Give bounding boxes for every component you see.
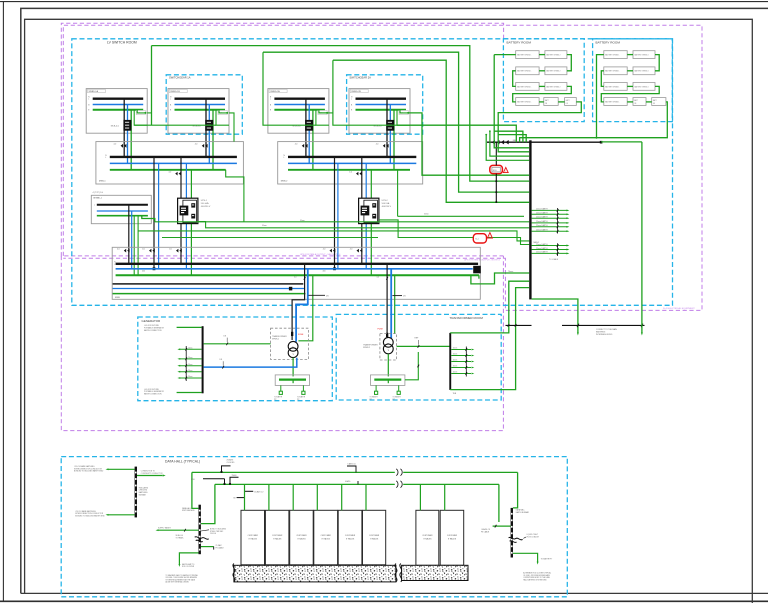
wire UPS-2 output green to main bus (370, 224, 372, 276)
UPS unit UPS-1 inner module (183, 200, 197, 223)
wire UPS-2 input blue (365, 163, 367, 200)
wire EB-1 bottom-left lead (108, 514, 135, 516)
svg-text:TO LOADS: TO LOADS (549, 258, 559, 261)
breaker feeder SWBD-1A black riser down (123, 99, 125, 157)
svg-text:L: L (270, 99, 271, 101)
customer IT rack 4 (314, 510, 338, 565)
isolator stub T1 (309, 294, 326, 296)
svg-text:L: L (114, 264, 115, 266)
svg-text:TRANSFORMER ROOM: TRANSFORMER ROOM (450, 316, 484, 320)
switchboard SWBD-1A blue bus (93, 104, 144, 106)
svg-text:4,0: 4,0 (376, 144, 379, 146)
svg-text:CUSTOMER: CUSTOMER (345, 535, 356, 537)
MSB-1 blue bus (110, 162, 237, 164)
transformer T2 symbol (383, 337, 393, 347)
svg-text:N+1 ELECTRICAL EQUIPMENT: N+1 ELECTRICAL EQUIPMENT (663, 307, 695, 310)
svg-text:BUSBAR: BUSBAR (139, 494, 147, 497)
MSB secondary green bus (113, 293, 306, 295)
customer IT rack 8 (440, 510, 464, 565)
wire green rail upper 3 (333, 60, 529, 202)
svg-text:CB: CB (545, 103, 547, 105)
wire SWBD-2B green exit to riser lower (397, 125, 516, 142)
svg-text:25mm EARTH: 25mm EARTH (536, 224, 548, 227)
wire battery room 1 feeder A riser-top branch (494, 131, 523, 142)
wire battery room 1 feeder A (charger) (494, 54, 516, 56)
earthing bus T1 (279, 379, 306, 381)
wire MSB-2 feeder black to main bus (334, 157, 336, 269)
svg-text:ROD CLUSTER: ROD CLUSTER (182, 566, 195, 568)
riser top chevron marks (492, 140, 495, 144)
breaker feeder SWBD-2A black riser down (305, 99, 307, 157)
wire data hall earth rail R1 (192, 471, 395, 473)
earth electrode T1 right (302, 385, 304, 391)
MSB-2 blue bus (288, 162, 416, 164)
wire EB-2 supply lead (158, 529, 199, 531)
battery string box row3 col2 (545, 83, 567, 91)
wire UPS-2 output blue to main bus (365, 223, 367, 269)
UPS unit UPS-1 static switch block lower (191, 214, 195, 219)
svg-text:25mm: 25mm (188, 348, 193, 350)
switch mark on T1 feed (304, 277, 306, 280)
svg-text:25mm EARTH: 25mm EARTH (536, 208, 548, 211)
remote power panel earth bar EB-3 (511, 508, 513, 558)
MSB secondary blue bus (113, 288, 305, 290)
label frame SWBD-1A tap (136, 110, 145, 114)
wire SWBD-2A green bus tap lower (316, 110, 329, 126)
svg-text:SWITCHGEAR 1A: SWITCHGEAR 1A (169, 76, 191, 80)
concrete pad break wave left end (233, 564, 235, 582)
generator bottom earth lead (177, 392, 202, 394)
earth electrode T2 right (398, 385, 400, 391)
wire SWBD-2B green bus tap upper (400, 110, 409, 113)
wire T2 LV down to earthing (387, 354, 389, 377)
svg-text:MSB-1: MSB-1 (99, 181, 106, 183)
UPS unit UPS-1 static switch block upper (191, 203, 195, 207)
incoming breaker marks MSB from MSB-1 (149, 249, 151, 253)
wire MSB-1 feeder blue to main bus (158, 163, 160, 268)
wire green rail upper 2 (263, 52, 529, 192)
svg-text:BATTERY ROOM: BATTERY ROOM (507, 40, 532, 44)
wire riser left entry e3 (490, 131, 529, 156)
wire SWBD-1A lower tap to SWBD-1B tap (134, 124, 216, 126)
utility overhead line right segment (562, 324, 645, 326)
wire bypass rail B (UPS-1 output) (198, 222, 529, 228)
paralleling switchboard MSB-2 enclosure (278, 142, 423, 184)
earth electrode T2 left (375, 385, 377, 391)
wire stepped cable jog T1 (291, 301, 293, 311)
MSB-1 black bus (110, 156, 237, 158)
svg-text:6 AWG CU: 6 AWG CU (348, 463, 357, 466)
battery string box row1 col1 (516, 51, 539, 59)
battery serpentine right link row1-row2 (655, 55, 659, 71)
room box - SWITCHGEAR 2 (347, 75, 423, 134)
wire UPS-2 input green (370, 170, 372, 198)
fuse block on T1 cable entry (291, 332, 293, 336)
breaker mark UPS-1 input (175, 172, 177, 176)
wire battery room 2 feeder A (charger) (597, 55, 604, 138)
battery serpentine bridge row4a (627, 101, 633, 103)
svg-text:CU BOND: CU BOND (227, 462, 236, 464)
wire EB-2 bottom out (179, 553, 198, 565)
wire rack 2 earth drop (268, 484, 270, 510)
svg-text:IT RACKS: IT RACKS (346, 537, 355, 540)
UPS unit UPS-2 inner module (364, 200, 378, 223)
svg-text:25mm EARTH: 25mm EARTH (536, 216, 548, 219)
UPS unit UPS-2 static switch block lower (372, 214, 376, 219)
wire green riser drop to SWBD-2A lower tap (263, 52, 316, 125)
svg-text:25mm: 25mm (188, 357, 193, 359)
wire GEN-1 green feeder 2 to main bus (137, 216, 139, 276)
switchboard SWBD-2A enclosure (268, 89, 329, 134)
battery serpentine bridge row4b (558, 101, 564, 103)
main switchboard MSB enclosure (112, 247, 480, 299)
wire rack 5 earth drop (341, 484, 343, 510)
room box - BATTERY ROOM 1 (503, 39, 584, 122)
svg-text:SWITCHBOARD: SWITCHBOARD (182, 509, 195, 512)
svg-text:DATA HALL (TYPICAL): DATA HALL (TYPICAL) (165, 460, 200, 464)
MSB secondary black bus (113, 283, 304, 285)
generator top earth lead (177, 326, 202, 328)
breaker feeder SWBD-1B blue riser down (208, 105, 210, 164)
wire T2 neutral-earth link to room bus (397, 345, 450, 347)
svg-text:2: 2 (505, 171, 506, 173)
svg-text:MCB-4,0: MCB-4,0 (374, 126, 383, 128)
standby generator board GEN-1 enclosure (91, 195, 151, 223)
customer IT rack 3 (290, 510, 314, 565)
svg-text:MCB-4,0: MCB-4,0 (111, 126, 120, 128)
EB-2 right note with leader (201, 530, 209, 531)
circuit breaker CB-SWBD-1A (123, 120, 131, 131)
riser top horizontal bar (487, 141, 601, 143)
svg-text:35mm: 35mm (424, 214, 429, 216)
wire SWBD-2B green bus tap lower (397, 110, 410, 126)
svg-text:4,0: 4,0 (377, 277, 380, 279)
svg-text:PIT: PIT (274, 399, 277, 401)
incoming breaker marks MSB-1 from SWBD-1A (121, 144, 123, 148)
earthing bus T2 (374, 379, 401, 381)
wire battery room 2 spare feeder down (641, 142, 643, 333)
svg-text:IT RACKS: IT RACKS (322, 537, 331, 540)
flexible conduit symbol EB-2 (195, 537, 209, 540)
svg-text:EARTH CONNECTION: EARTH CONNECTION (144, 329, 162, 332)
battery serpentine left link row2-row3 (513, 71, 516, 87)
svg-text:L: L (284, 157, 285, 159)
svg-text:4,0: 4,0 (169, 171, 172, 173)
switchboard SWBD-2A black bus (274, 97, 325, 99)
battery serpentine bridge row4b (646, 101, 652, 103)
incoming breaker marks MSB from GENBD-1 (124, 249, 126, 253)
battery string box row3 col2 (633, 83, 655, 91)
paralleling switchboard MSB-1 enclosure (96, 142, 244, 184)
room box - SWITCHGEAR 1 (166, 75, 242, 134)
R2 bond mark 2 (230, 477, 239, 484)
revision triangle 2 (487, 233, 492, 239)
svg-text:25mm EARTH: 25mm EARTH (536, 229, 548, 232)
UPS unit UPS-2 rectifier block (361, 206, 370, 216)
svg-text:IT RACKS: IT RACKS (423, 537, 432, 540)
battery disconnect box row4 col2b (652, 98, 666, 106)
concrete pad break wave right end (395, 564, 397, 582)
customer IT rack 1 (241, 510, 265, 565)
earthing assembly T1 box (275, 375, 309, 386)
breaker feeder SWBD-2B blue riser down (389, 105, 391, 164)
circuit breaker CB-SWBD-2B (386, 120, 394, 131)
R1 bond mark right (347, 466, 356, 472)
svg-text:4,0: 4,0 (323, 249, 326, 251)
svg-text:4,0: 4,0 (142, 249, 145, 251)
battery serpentine long link row3-row4 (513, 86, 572, 102)
svg-text:XFMR-2: XFMR-2 (363, 347, 370, 349)
circuit breaker CB-SWBD-2A (305, 120, 313, 131)
svg-text:35mm: 35mm (262, 225, 267, 227)
svg-text:SWBD-1A: SWBD-1A (89, 90, 99, 93)
svg-text:IT RACKS: IT RACKS (249, 537, 258, 540)
wire SWBD-2A upper tap to rail drop (319, 112, 333, 114)
wire earthing bus T2 riser link (405, 352, 418, 380)
wire GEN-1 green side exit to bypass rail A (142, 216, 155, 222)
svg-text:25mm EARTH: 25mm EARTH (536, 247, 548, 250)
wire battery room 2 string output to spare riser (520, 102, 668, 142)
svg-text:500 kVA: 500 kVA (382, 202, 390, 205)
switch mark on T2 feed (386, 277, 388, 280)
wire EB-3 bottom out (513, 553, 538, 562)
R1 bond mark 1 (222, 466, 231, 473)
wire UPS-1 input green (190, 170, 192, 198)
label frame SWBD-2B tap (399, 110, 408, 114)
svg-text:CB: CB (634, 103, 636, 105)
magenta scope box M3 (generator and transformer boundary) (61, 256, 503, 431)
wire rack 6 earth drop (365, 484, 367, 510)
svg-text:L: L (351, 99, 352, 101)
switchboard SWBD-2B green bus (356, 109, 407, 111)
magenta scope box M2 (UPS system B boundary) (63, 25, 702, 310)
svg-text:L: L (105, 157, 106, 159)
riser DC distribution stubs group 1 (532, 209, 567, 211)
customer IT rack 5 (338, 510, 362, 565)
customer IT rack 6 (363, 510, 386, 565)
riser main earth bar (529, 140, 531, 299)
svg-text:4,0: 4,0 (349, 171, 352, 173)
wire battery room 2 spare feeder top link (601, 141, 642, 143)
battery string box row2 col1 (604, 67, 627, 75)
concrete housekeeping pad left (234, 565, 396, 582)
wire MSB-1 feeder black to main bus (153, 157, 155, 269)
svg-text:4,0: 4,0 (294, 277, 297, 279)
wire SWBD-1A green tap link (147, 112, 151, 114)
wire SWBD-1B green bus tap upper (219, 110, 228, 113)
incoming breaker marks MSB-2 from SWBD-2A (302, 144, 304, 148)
wire GEN-1 green feeder to main bus (133, 216, 135, 276)
wire SWBD-1B green upper tap exit (229, 113, 234, 142)
wire R1 to switchboard drop (192, 472, 199, 508)
battery breaker box row4 col2a (544, 98, 558, 106)
svg-text:70mm: 70mm (508, 271, 514, 273)
wire UPS-1 output blue to main bus (185, 223, 187, 269)
utility switch mark 2 (577, 324, 579, 327)
battery serpentine left link row2-row3 (601, 71, 604, 87)
svg-text:L: L (94, 205, 95, 207)
isolator stub T2 (392, 295, 402, 297)
svg-text:L: L (170, 99, 171, 101)
wire SWBD-1A green bus tap upper (137, 110, 146, 113)
battery string box row3 col1 (604, 83, 627, 91)
wire EB-3 left stub (493, 525, 511, 527)
battery serpentine bridge row1 (627, 54, 633, 56)
battery breaker box row4 col2a (633, 98, 646, 106)
svg-text:CUSTOMER: CUSTOMER (369, 535, 380, 537)
svg-text:400: 400 (142, 271, 145, 273)
switchboard SWBD-1B green bus (175, 109, 226, 111)
wire battery room 1 feeder B riser-top branch (498, 135, 526, 143)
svg-text:TO EARTH PIT: TO EARTH PIT (541, 557, 553, 560)
riser DC distribution stubs group 2 (532, 245, 567, 247)
wire generator blue output to T1 (204, 358, 297, 367)
wire GEN-1 blue feeder to main bus (131, 211, 133, 269)
svg-text:L: L (88, 99, 89, 101)
svg-text:250.104: 250.104 (210, 533, 216, 535)
svg-text:4,0: 4,0 (169, 249, 172, 251)
fuse block on T2 cable entry (386, 333, 388, 337)
battery serpentine right link row1-row2 (567, 55, 571, 71)
UPS unit UPS-2 static switch block upper (372, 203, 376, 207)
wire SWBD-2A green bus tap upper (319, 110, 328, 113)
svg-text:MSB: MSB (115, 297, 120, 299)
wire earth bar top to riser (450, 281, 529, 333)
transformer T1 containment dashed box (271, 328, 309, 359)
svg-text:FS CABLE: FS CABLE (481, 530, 490, 533)
svg-text:500 kVA: 500 kVA (201, 202, 209, 205)
wire SWBD-1A green riser drop (151, 46, 153, 126)
switchboard SWBD-1A enclosure (86, 89, 147, 134)
wire rack 7 earth drop (419, 484, 421, 510)
wire rack 8 earth drop (444, 484, 446, 510)
svg-text:FUSE: FUSE (298, 334, 304, 336)
breaker feeder SWBD-2A green riser down (312, 110, 314, 170)
wire transformer T1 black feed (292, 264, 305, 340)
MSB-1 green bus (110, 169, 226, 171)
svg-text:XFMR-1: XFMR-1 (272, 339, 279, 341)
svg-text:IT RACKS: IT RACKS (370, 537, 379, 540)
data hall earth bar EB-1 (left) (135, 467, 137, 518)
switchboard SWBD-2B blue bus (356, 104, 407, 106)
room box - DATA HALL (TYPICAL) (61, 457, 567, 597)
breaker feeder SWBD-2A blue riser down (308, 105, 310, 164)
svg-text:2: 2 (489, 236, 490, 238)
MSB green bus (116, 274, 479, 276)
wire EB-2 right stub (201, 546, 214, 548)
svg-text:UPS-2: UPS-2 (382, 200, 389, 202)
svg-text:16mm: 16mm (453, 366, 458, 368)
svg-text:UPS-1: UPS-1 (201, 200, 208, 202)
battery string box row1 col2 (633, 51, 655, 59)
wire bypass rail C (138, 231, 529, 241)
svg-text:4,0: 4,0 (295, 144, 298, 146)
battery string box row1 col1 (604, 51, 627, 59)
riser stub tie bar 1 (557, 208, 559, 234)
breaker feeder SWBD-1B black riser down (205, 99, 207, 157)
svg-text:DS: DS (566, 103, 568, 105)
wire R2 right drop (498, 484, 500, 522)
revision cloud 1 with battery disconnect (490, 165, 503, 173)
wire green rail upper 1 (152, 46, 530, 182)
MSB-2 black bus (288, 156, 416, 158)
svg-text:16mm: 16mm (453, 348, 458, 350)
wire GEN-1 black feeder to main bus (128, 205, 130, 264)
transformer room stub tie bar (465, 347, 467, 377)
svg-text:25mm: 25mm (188, 376, 193, 378)
battery string box row2 col1 (516, 67, 539, 75)
svg-text:4,0: 4,0 (117, 249, 120, 251)
incoming breaker marks MSB from UPS-2 (357, 249, 359, 253)
earth electrode T1 left (280, 385, 282, 391)
wire rack 1 earth drop (244, 484, 246, 510)
magenta scope box M1 (UPS system A boundary) (61, 23, 503, 256)
svg-text:MSB-2: MSB-2 (281, 181, 288, 183)
battery serpentine bridge row3 (627, 85, 633, 87)
room box - TRANSFORMER ROOM (336, 314, 501, 400)
UPS unit UPS-1 rectifier block (180, 206, 189, 216)
wire EB-1 top-left lead (108, 468, 135, 470)
label frame SWBD-1B tap (218, 110, 227, 114)
utility crossing mark (515, 324, 517, 327)
svg-text:TRANSFORMER: TRANSFORMER (272, 335, 287, 338)
svg-text:IT RACKS: IT RACKS (448, 537, 457, 540)
battery disconnect box row4 col2b (565, 98, 577, 106)
svg-text:LV SWITCH ROOM: LV SWITCH ROOM (107, 41, 137, 45)
switchboard SWBD-2B enclosure (349, 89, 410, 134)
wire bypass rail D (UPS-2 output) (379, 220, 529, 245)
breaker feeder SWBD-2B black riser down (386, 99, 388, 157)
wire riser left entry e4 (486, 135, 529, 161)
transformer room earth bar (449, 333, 451, 390)
secondary bus end coupler (289, 287, 292, 291)
svg-text:GB: GB (233, 498, 235, 500)
UPS unit UPS-1 outer enclosure (178, 198, 198, 223)
room box - LV SWITCH ROOM (72, 39, 673, 306)
room box - GENERATOR (138, 317, 332, 401)
svg-text:TRANSFORMER: TRANSFORMER (363, 344, 378, 347)
wire T1 LV down to earthing (292, 358, 294, 377)
svg-text:PIT: PIT (297, 399, 300, 401)
data hall switchboard earth bar EB-2 (199, 505, 201, 555)
battery serpentine bridge row1 (539, 54, 545, 56)
svg-text:MCB-4,0: MCB-4,0 (292, 126, 301, 128)
battery string box row1 col2 (545, 51, 567, 59)
wire EB-1 right branch (137, 475, 163, 477)
generator future stubs (180, 348, 202, 350)
wire UPS-2 input black (361, 157, 363, 206)
wire transformer T1 blue feed (296, 269, 308, 342)
switchboard SWBD-1B blue bus (175, 104, 226, 106)
MSB black bus (116, 263, 479, 265)
battery serpentine bridge row4a (539, 101, 544, 103)
wire bypass rail A (155, 221, 529, 223)
svg-text:25mm EARTH: 25mm EARTH (536, 251, 548, 254)
svg-text:GENBD-1: GENBD-1 (93, 197, 103, 199)
battery serpentine long link row3-row4 (601, 86, 659, 102)
svg-text:4,0: 4,0 (195, 144, 198, 146)
svg-text:400/230 V: 400/230 V (201, 206, 211, 208)
svg-text:4,0: 4,0 (350, 249, 353, 251)
breaker feeder SWBD-2B green riser down (393, 110, 395, 170)
battery string box row2 col2 (545, 67, 567, 75)
svg-text:6 AWG: 6 AWG (345, 480, 351, 483)
MSB bus end coupler (473, 266, 481, 274)
svg-text:MCB-4,0: MCB-4,0 (193, 126, 202, 128)
svg-text:VOLUME - THIS FIGURE SHOWS MIN: VOLUME - THIS FIGURE SHOWS MINIMUM (166, 577, 198, 579)
flexible conduit symbol EB-3 (509, 537, 523, 540)
MSB blue bus (116, 268, 473, 270)
